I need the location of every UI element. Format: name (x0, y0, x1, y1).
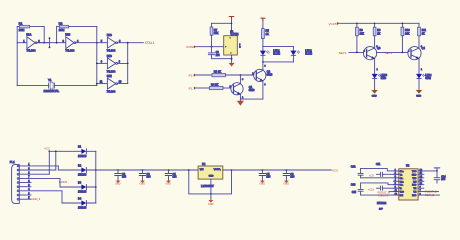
wire buffer2 input (97, 62, 108, 64)
svg-text:GND: GND (416, 96, 421, 98)
svg-text:R1O: R1O (412, 185, 417, 187)
pin 4 (17, 178, 19, 180)
wire R1IN (424, 194, 440, 196)
svg-text:NET1: NET1 (339, 51, 347, 55)
wire crystal row (17, 85, 97, 87)
pin 7 (17, 190, 19, 192)
node junction (43, 42, 45, 44)
svg-text:NET2: NET2 (385, 51, 393, 55)
resistor R5 (262, 21, 264, 29)
node junction (96, 42, 98, 44)
resistor R10 (401, 23, 403, 27)
svg-text:T1O: T1O (412, 178, 416, 180)
op-amp U1C buffer (107, 37, 115, 48)
pin stubs right (418, 171, 424, 195)
wire R3 to Q2 base (226, 74, 257, 76)
svg-text:GND: GND (140, 183, 146, 186)
svg-text:GND: GND (208, 203, 214, 206)
wire T1OUT (424, 191, 439, 193)
svg-text:104: 104 (173, 176, 178, 179)
LED D6 (292, 47, 294, 51)
capacitor C3 (142, 169, 144, 171)
svg-text:T1IN_TX: T1IN_TX (378, 194, 389, 198)
IC U3 MAX232 (399, 169, 418, 200)
ground (208, 200, 213, 202)
port P10 (194, 74, 197, 76)
wire LED rails (263, 47, 294, 62)
port VCC (337, 22, 340, 24)
wire loop2 top (57, 26, 97, 28)
svg-text:104: 104 (216, 54, 221, 57)
svg-text:R1I: R1I (413, 181, 417, 183)
wire VCC right (424, 168, 437, 171)
op-amp U1E buffer (107, 78, 115, 89)
transistor Q2 (254, 69, 266, 81)
svg-text:10M: 10M (59, 28, 65, 32)
transistor Q1 (231, 83, 243, 95)
port POWER (194, 46, 197, 48)
capacitor C11 (358, 169, 363, 178)
op-amp U1B inverter (66, 37, 74, 49)
pin 9 (17, 198, 19, 200)
capacitor C1 series (49, 38, 51, 47)
capacitor C14 (434, 171, 440, 183)
opto U2 (224, 36, 238, 55)
capacitor C5 (262, 169, 264, 171)
svg-text:T1OUT_2: T1OUT_2 (425, 189, 437, 193)
wire diode1 anode (49, 150, 81, 152)
wire C11 bottom (361, 177, 399, 179)
resistor R1 (19, 25, 29, 28)
capacitor C2 (117, 169, 119, 171)
svg-text:104: 104 (122, 176, 127, 179)
wire to inverter2 (37, 42, 66, 44)
svg-text:R2: R2 (59, 22, 63, 26)
crystal Y1 (49, 83, 55, 88)
svg-text:VOUT: VOUT (214, 169, 221, 171)
svg-text:9013: 9013 (249, 88, 255, 92)
resistor R7 (211, 23, 213, 27)
pin 3 (17, 173, 19, 175)
svg-text:+C10: +C10 (368, 187, 375, 191)
svg-text:R1IN_2: R1IN_2 (425, 193, 435, 197)
svg-text:C2-: C2- (400, 185, 404, 187)
svg-text:U1A: U1A (26, 33, 31, 37)
wire pin7 drop (62, 191, 81, 203)
svg-text:104: 104 (147, 176, 152, 179)
svg-text:GND_9: GND_9 (32, 197, 41, 201)
svg-text:1K: 1K (422, 32, 425, 35)
svg-text:U4: U4 (202, 162, 206, 166)
svg-text:GND: GND (209, 175, 214, 177)
capacitor C8 (211, 47, 213, 53)
wire top rail (212, 19, 232, 36)
svg-text:1N4148: 1N4148 (78, 207, 87, 210)
svg-text:GND: GND (284, 183, 290, 186)
ground (116, 181, 121, 183)
svg-text:U1D: U1D (107, 55, 112, 58)
capacitor C10 (377, 187, 399, 189)
svg-text:RED: RED (381, 77, 386, 80)
svg-text:74LS04: 74LS04 (65, 48, 75, 52)
svg-text:GND: GND (115, 183, 121, 186)
svg-text:C11: C11 (376, 163, 381, 166)
svg-text:104: 104 (266, 176, 271, 179)
resistor R8 (356, 23, 358, 27)
svg-text:R1: R1 (19, 22, 23, 26)
svg-text:10K: 10K (360, 32, 365, 35)
LED D5 (262, 47, 264, 51)
wire bus left (96, 169, 198, 171)
wire P11 to R4 (197, 87, 210, 89)
svg-text:VCC: VCC (332, 168, 339, 172)
ground (418, 88, 420, 91)
svg-text:10M: 10M (19, 28, 25, 32)
op-amp U1D buffer (107, 58, 115, 69)
power bar (434, 167, 439, 169)
svg-text:GND: GND (412, 174, 417, 176)
wire pin2 riser (55, 151, 57, 170)
wire R4 to Q1 base (223, 87, 234, 89)
wire buffer3 input (97, 83, 108, 85)
resistor R4 (210, 86, 224, 89)
pin 8 (17, 194, 19, 196)
svg-text:74LS04: 74LS04 (107, 50, 116, 53)
wire pin1 drop (58, 166, 81, 170)
diode D1 (81, 149, 86, 154)
svg-text:P1.0: P1.0 (189, 73, 196, 77)
wire emitter rail (240, 98, 263, 100)
svg-text:C12: C12 (351, 166, 356, 169)
svg-text:LM7805CT: LM7805CT (201, 184, 214, 188)
svg-text:GND: GND (260, 183, 266, 186)
pin 6 (17, 186, 19, 188)
wire VCC vertical (48, 151, 50, 174)
svg-text:T1I: T1I (413, 188, 416, 190)
svg-text:16P: 16P (379, 209, 383, 211)
svg-text:74LS04: 74LS04 (107, 91, 116, 94)
svg-text:74LS04: 74LS04 (107, 70, 116, 73)
capacitor C13 (358, 183, 363, 195)
svg-text:U1E: U1E (107, 75, 112, 78)
resistor R11 (418, 23, 420, 27)
ground (239, 99, 241, 101)
diode D4 (81, 200, 86, 205)
svg-text:VCC: VCC (44, 147, 50, 151)
ground (284, 181, 289, 183)
op-amp U1A inverter (27, 37, 35, 49)
wire loop1 top (17, 26, 44, 28)
ground (166, 181, 171, 183)
svg-text:R3 1K: R3 1K (214, 69, 221, 73)
diode D3 (81, 184, 86, 189)
ground (237, 101, 244, 106)
svg-text:104: 104 (290, 176, 295, 179)
wire bus right (223, 169, 331, 171)
wire loop C11 (361, 169, 399, 171)
svg-text:GRN: GRN (425, 77, 431, 80)
wire loop2 left vertical (56, 27, 58, 43)
resistor R2 (59, 25, 68, 28)
svg-text:T2I: T2I (413, 192, 416, 194)
resistor R3 (212, 73, 226, 76)
wire regulator gnd (210, 179, 212, 200)
ground (229, 63, 235, 67)
svg-text:U1C: U1C (107, 34, 112, 37)
svg-text:R2O: R2O (412, 195, 417, 197)
svg-text:12MHzXTAL: 12MHzXTAL (44, 89, 60, 93)
svg-text:POWR: POWR (186, 45, 195, 49)
node rail junctions (356, 23, 358, 25)
transistor Q4 (408, 47, 421, 60)
wire buffer outputs (118, 43, 144, 84)
svg-text:XTAL1: XTAL1 (145, 41, 155, 45)
wire diode bus vertical (95, 151, 97, 203)
capacitor C6 (286, 169, 288, 171)
svg-text:R2I: R2I (400, 195, 404, 197)
diode D2 (81, 167, 86, 172)
wire bypass loop (189, 170, 232, 194)
wire P10 to R3 (197, 74, 212, 76)
svg-text:74LS04: 74LS04 (27, 48, 37, 52)
wire right vertical (96, 27, 98, 86)
svg-text:U1B: U1B (65, 33, 70, 37)
pin 1 (17, 165, 19, 167)
wire inverter1 input (17, 42, 27, 44)
svg-text:9013: 9013 (267, 73, 273, 77)
svg-text:GND: GND (372, 96, 377, 98)
ground (260, 181, 265, 183)
svg-text:10K: 10K (405, 32, 410, 35)
port P11 (194, 87, 197, 89)
wire inverter2 output (76, 42, 108, 44)
regulator U4 7805 (198, 166, 223, 179)
svg-text:1N4148: 1N4148 (78, 174, 87, 177)
LED D8 (416, 74, 422, 79)
wire loop1 right vertical (43, 27, 45, 43)
svg-text:U3: U3 (406, 163, 410, 167)
svg-text:T2O: T2O (400, 192, 404, 194)
wire top rail (340, 22, 419, 24)
svg-text:VCC5V: VCC5V (329, 22, 339, 26)
ground (140, 181, 145, 183)
svg-text:1K: 1K (266, 32, 269, 36)
svg-text:104: 104 (441, 178, 446, 181)
capacitor C9 (377, 173, 399, 175)
svg-text:VCC: VCC (412, 171, 417, 173)
power VCC bar (229, 17, 234, 19)
wire port to U2 (197, 46, 224, 48)
pin 5 (17, 182, 19, 184)
wire pin5 drop (60, 178, 81, 187)
svg-text:C13: C13 (351, 183, 356, 186)
power VCC bar (261, 18, 265, 20)
svg-text:C15: C15 (352, 192, 357, 194)
svg-text:+C9: +C9 (369, 174, 375, 178)
LED D7 (372, 74, 378, 79)
wire R1OUT (389, 191, 399, 193)
svg-text:TLP521: TLP521 (230, 33, 239, 36)
ground (374, 88, 376, 91)
svg-text:10K: 10K (214, 31, 219, 35)
wire inverter1 output (37, 42, 49, 44)
svg-text:GND: GND (166, 183, 172, 186)
pin stubs left (393, 171, 398, 195)
resistor R9 (374, 23, 376, 27)
svg-text:C1-: C1- (400, 178, 404, 180)
svg-text:1N4148: 1N4148 (78, 155, 87, 158)
svg-text:BLUE: BLUE (273, 52, 280, 56)
svg-text:Y1: Y1 (48, 78, 52, 82)
svg-text:R4 1K: R4 1K (211, 82, 218, 86)
svg-text:P1.1: P1.1 (189, 86, 196, 90)
svg-text:1N4148: 1N4148 (78, 191, 87, 194)
wire Q3 base (349, 51, 367, 53)
wire output vertical (127, 43, 129, 84)
svg-text:V-: V- (400, 188, 402, 190)
pin 2 (17, 169, 19, 171)
transistor Q3 (364, 47, 377, 60)
wire cross coupling (376, 51, 411, 53)
svg-text:MAX232: MAX232 (377, 202, 387, 205)
wire loop C13 (361, 183, 399, 185)
wire left vertical (16, 27, 18, 86)
svg-text:PL1: PL1 (10, 160, 15, 164)
svg-text:1K: 1K (377, 32, 380, 35)
svg-text:VIN: VIN (200, 169, 204, 171)
wire U2 bottom (231, 55, 233, 63)
node junction (56, 42, 58, 44)
capacitor C4 (168, 169, 170, 171)
svg-text:BLUE: BLUE (305, 52, 312, 56)
wire C13 bottom (361, 194, 399, 196)
